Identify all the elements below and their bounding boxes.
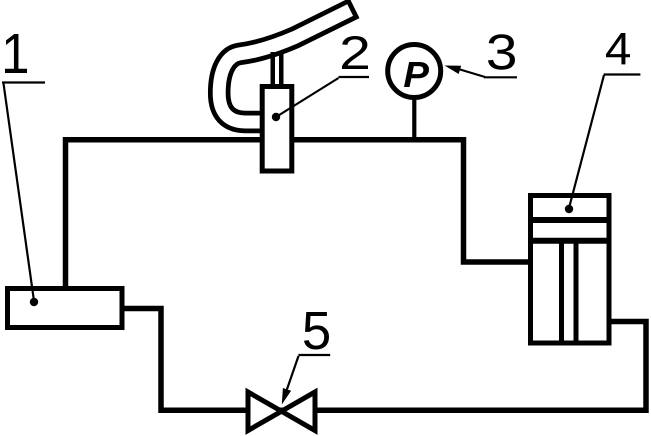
label 2 dot (272, 113, 280, 121)
cylinder (component 4) (528, 196, 611, 344)
label 4 leader (569, 75, 604, 208)
wire bottom run: tank out, down, through valve, up right to cylinder out (124, 309, 646, 411)
label 1 (5, 34, 27, 73)
pump stem (piston rod lines) (271, 52, 276, 90)
label 5 (304, 312, 329, 349)
label 4 (606, 33, 630, 64)
label 5 arrowhead (282, 388, 291, 405)
label 4 dot (565, 205, 573, 213)
label 1 underline (2, 81, 45, 83)
pump body (component 2) (262, 87, 292, 172)
tank (component 1) (8, 289, 123, 328)
wire gauge stem (412, 98, 416, 140)
label 4 underline (604, 73, 641, 75)
label 3 leader (455, 68, 485, 77)
wire main loop: tank up, top run, down to cylinder inlet (66, 140, 530, 288)
label 5 underline (298, 354, 330, 356)
label 5 leader (285, 356, 299, 395)
label 3 (488, 34, 515, 70)
pump handle (curved lever tube) (219, 8, 354, 122)
label 1 leader (4, 84, 35, 302)
label 2 underline (339, 76, 370, 78)
label 2 leader (276, 78, 339, 117)
label 3 underline (484, 76, 517, 78)
valve (component 5) (248, 392, 315, 431)
label 3 arrowhead (445, 66, 462, 75)
label 2 (342, 36, 368, 69)
label 1 dot (30, 298, 38, 306)
pressure gauge (component 3) (388, 45, 441, 98)
